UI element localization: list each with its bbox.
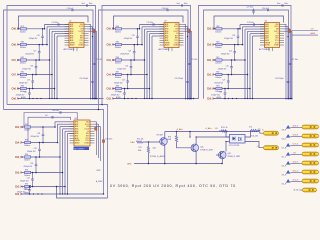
svg-text:XTL1: XTL1: [85, 138, 89, 140]
wire to J5: [257, 131, 263, 134]
capacitor C33 100n: [102, 139, 112, 143]
svg-text:100ohm: 100ohm: [24, 130, 31, 132]
svg-text:100ohm: 100ohm: [20, 77, 27, 79]
net label Ch5_IN: [107, 29, 115, 31]
resistor R74: [221, 127, 228, 132]
net label J5: [262, 129, 264, 131]
svg-text:C21 100n: C21 100n: [291, 59, 298, 61]
wire ADC output 4 block 2: [184, 31, 193, 99]
capacitor C16 4700pF: [29, 28, 44, 45]
wire to connector 5: [290, 162, 302, 164]
wire bus 3 to ADC pin block 1: [49, 29, 69, 99]
wire row 4 block 1: [18, 74, 21, 76]
wire opto out bottom: [245, 142, 264, 148]
svg-text:U3: U3: [265, 21, 267, 23]
ferrite bead block 2: [187, 30, 190, 37]
wire rail tap to opto: [189, 132, 191, 138]
svg-text:100ohm: 100ohm: [20, 31, 27, 33]
svg-text:4700pF 2kV: 4700pF 2kV: [111, 95, 121, 97]
wire bus 5 to ADC pin block 1: [54, 34, 69, 99]
svg-text:100ohm: 100ohm: [215, 77, 222, 79]
node port Ch6_In: [282, 161, 291, 168]
svg-text:DOUT: DOUT: [79, 31, 84, 33]
svg-text:4700pF 2kV: 4700pF 2kV: [22, 68, 32, 70]
wire Vref loop block 3: [199, 6, 292, 99]
svg-text:Vref: Vref: [82, 3, 86, 5]
wire bus 2 to ADC pin block 2: [141, 27, 164, 46]
svg-text:REFIN: REFIN: [265, 42, 271, 44]
svg-text:C21 100n: C21 100n: [191, 59, 198, 61]
net label Ch8_R out: [293, 134, 299, 136]
capacitor C27: [247, 7, 255, 15]
svg-text:100n: 100n: [184, 3, 188, 5]
svg-text:C13 100n: C13 100n: [147, 22, 154, 24]
net label Ch0_R: [207, 98, 215, 100]
capacitor C20 4700pF block 2: [175, 78, 189, 82]
wire ADC output 3 block 2: [184, 29, 191, 100]
wire bus 5 to ADC pin block 4: [64, 131, 74, 194]
svg-text:100kR: 100kR: [166, 139, 172, 141]
bottom channel block 4: [15, 110, 108, 198]
resistor R86 100ohm: [115, 57, 122, 65]
wire to connector 7: [290, 180, 302, 182]
top channel block 2: [99, 3, 199, 110]
svg-text:+5_AVcc: +5_AVcc: [176, 128, 183, 131]
svg-text:+5_AVcc: +5_AVcc: [205, 127, 212, 130]
wire ADC output 4 block 3: [284, 31, 293, 99]
capacitor C29 4700pF: [27, 142, 41, 158]
capacitor C18 4700pF: [22, 59, 37, 75]
svg-text:100ohm: 100ohm: [20, 47, 27, 49]
net label Ch1_R: [207, 74, 215, 76]
svg-text:U1: U1: [69, 21, 71, 23]
svg-text:RST: RST: [80, 38, 83, 40]
svg-text:C20: C20: [132, 35, 135, 37]
svg-text:100n: 100n: [284, 3, 288, 5]
svg-text:R71 10k: R71 10k: [137, 138, 143, 140]
wire bus 6 to ADC pin block 4: [67, 134, 74, 195]
wire bus 3 to ADC pin block 2: [144, 29, 164, 99]
capacitor C34 100n: [52, 110, 61, 114]
svg-text:4700pF 2kV: 4700pF 2kV: [20, 181, 30, 183]
wire bus 5 to ADC pin block 2: [149, 34, 164, 99]
resistor R73 100k: [166, 132, 178, 142]
svg-text:SYNGE_IO_ANGR: SYNGE_IO_ANGR: [150, 155, 165, 158]
capacitor C24 4700pF: [224, 28, 239, 45]
svg-text:4700pF 2kV: 4700pF 2kV: [114, 83, 124, 85]
svg-text:DGND: DGND: [84, 143, 90, 145]
wire bus 1 to ADC pin block 3: [239, 25, 264, 30]
svg-text:4700pF 2kV: 4700pF 2kV: [19, 83, 29, 85]
wire ADC output 2 block 1: [89, 27, 94, 100]
svg-text:XTL1: XTL1: [275, 40, 279, 42]
capacitor C13 100n block 1: [52, 22, 60, 26]
opto-isolator U5: [229, 135, 245, 148]
net label +5_AVcc A: [176, 128, 183, 131]
top channel block 1: [4, 3, 104, 110]
transistor Q26: [219, 151, 241, 159]
output connector column: [282, 125, 319, 192]
wire row 6 block 4: [25, 191, 30, 194]
svg-text:OPTO-TLP181: OPTO-TLP181: [229, 145, 240, 147]
wire bus 4 to ADC pin block 3: [247, 31, 265, 99]
svg-text:C20 4700pF: C20 4700pF: [175, 78, 184, 80]
wire row 3 block 2: [113, 59, 116, 61]
net label Ch4_R: [107, 73, 115, 76]
wire ADC output 2 block 2: [184, 27, 189, 100]
svg-text:AD7718BRU: AD7718BRU: [74, 147, 85, 150]
svg-text:4700pF 2kV: 4700pF 2kV: [211, 95, 221, 97]
resistor R80 100ohm: [20, 42, 27, 50]
wire ADC output 3 block 1: [89, 29, 96, 100]
svg-text:+5: +5: [257, 146, 259, 148]
wire REFIN route block 3: [214, 16, 284, 29]
wire bus 6 to ADC pin block 2: [151, 36, 164, 99]
net label Ch2_R bottom: [15, 194, 23, 196]
ferrite bead block 1: [92, 30, 95, 37]
svg-text:C27 100n: C27 100n: [247, 7, 254, 9]
svg-text:C24: C24: [119, 92, 122, 94]
svg-text:4700pF 2kV: 4700pF 2kV: [120, 54, 130, 56]
net label DAC: [131, 141, 136, 144]
net label Ch4_IN bottom: [15, 126, 23, 129]
svg-text:4700pF 2kV: 4700pF 2kV: [117, 68, 127, 70]
wire to connector 6: [290, 171, 302, 173]
wire row 3 block 1: [18, 59, 21, 61]
net label Ch3_IN: [107, 88, 115, 90]
svg-text:100ohm: 100ohm: [215, 47, 222, 49]
op-amp ADC U2 AD7718BRU: [159, 21, 184, 52]
svg-text:XTL1: XTL1: [174, 40, 178, 42]
capacitor C15 100n Vref block 3: [277, 3, 288, 7]
svg-text:REFIN: REFIN: [70, 42, 76, 44]
resistor R92 100ohm: [24, 140, 31, 148]
wire ADC4 output 1: [95, 122, 97, 155]
svg-text:DAC: DAC: [131, 141, 136, 144]
transistor Q25: [191, 144, 214, 152]
svg-text:Q26: Q26: [228, 153, 231, 155]
capacitor C25 4700pF: [221, 44, 236, 61]
note text: [110, 184, 236, 188]
wire bus 2 to ADC pin block 3: [242, 27, 265, 46]
net label Ch5_R: [107, 44, 115, 46]
svg-text:C25: C25: [229, 50, 232, 52]
svg-text:DGND: DGND: [274, 45, 280, 47]
capacitor C20 4700pF: [124, 28, 139, 45]
net label +5 J6: [257, 146, 259, 148]
svg-text:C33 100n: C33 100n: [105, 139, 112, 141]
capacitor C15 100n Vref block 2: [177, 3, 188, 7]
capacitor C20 4700pF: [16, 88, 31, 100]
net label TxD: [251, 136, 258, 138]
wire ADC4 output 2: [95, 124, 99, 158]
wire GND rail: [134, 163, 222, 165]
resistor R92 100ohm: [215, 72, 222, 80]
connector P4: [302, 152, 319, 156]
node port Ch5_In: [282, 170, 291, 177]
wire Q25 collector: [196, 137, 229, 145]
capacitor C14 4u7 block 1: [67, 8, 74, 11]
capacitor C20 4700pF block 1: [80, 78, 94, 82]
net label W_Db: [294, 190, 299, 192]
net label Ch6_R: [12, 98, 20, 100]
svg-text:DGND: DGND: [78, 45, 84, 47]
svg-text:XTL2: XTL2: [79, 42, 83, 44]
net label GND: [127, 163, 132, 165]
wire row 5 block 1: [18, 88, 21, 90]
wire to connector 3: [290, 144, 302, 146]
capacitor C30 4700pF: [24, 156, 38, 173]
wire AGND rail: [4, 110, 104, 195]
connector P1: [302, 125, 319, 129]
capacitor C31 4700pF: [20, 172, 34, 188]
capacitor C22 4700pF: [117, 59, 132, 75]
connector P5: [302, 161, 319, 165]
connector P7: [302, 179, 319, 183]
resistor R79 100ohm: [20, 26, 27, 34]
ferrite bead block 4: [95, 127, 97, 130]
svg-text:100ohm: 100ohm: [24, 160, 31, 162]
svg-text:4700pF 2kV: 4700pF 2kV: [17, 191, 27, 193]
svg-text:4700pF 2kV: 4700pF 2kV: [29, 38, 39, 40]
wire row 2 block 4: [21, 142, 24, 144]
capacitor C14 4u7 block 2: [162, 8, 169, 11]
resistor R95 100ohm: [24, 184, 31, 192]
svg-text:W_Db: W_Db: [294, 190, 299, 192]
net label Ch8_R: [12, 44, 20, 46]
resistor R75 4.7k: [249, 127, 261, 132]
svg-text:C32: C32: [24, 188, 27, 190]
svg-text:4u7: 4u7: [45, 115, 48, 117]
connector P3: [302, 143, 319, 147]
net label Ch6_In out: [293, 161, 299, 163]
resistor R88 100ohm: [115, 86, 122, 94]
resistor R84 100ohm: [115, 26, 122, 34]
svg-text:C13 100n: C13 100n: [247, 22, 254, 24]
svg-text:C14 4u7: C14 4u7: [162, 8, 169, 10]
svg-text:100ohm: 100ohm: [115, 31, 122, 33]
wire row 5 block 2: [113, 88, 116, 90]
wire ADC output 1 block 1: [89, 24, 92, 99]
wire bus 3 to ADC pin block 3: [244, 29, 264, 99]
wire opto pin2 to Q26: [225, 142, 227, 152]
resistor R81 100ohm: [20, 57, 27, 65]
wire to connector 1: [290, 126, 302, 128]
capacitor C28 4700pF: [211, 88, 226, 100]
svg-text:DOUT: DOUT: [274, 31, 279, 33]
connector P2: [302, 134, 319, 138]
svg-text:XTL1: XTL1: [79, 40, 83, 42]
net label Ch3_R bottom: [15, 172, 23, 174]
svg-text:TxD_485: TxD_485: [251, 136, 258, 138]
capacitor C21 100n block 2: [188, 59, 197, 64]
net label +5_AVcc B: [205, 127, 212, 130]
svg-text:SYNGE_IO_4N2R: SYNGE_IO_4N2R: [200, 149, 213, 151]
resistor R85 100ohm: [115, 42, 122, 50]
svg-text:C19: C19: [27, 80, 30, 82]
svg-text:100ohm: 100ohm: [215, 31, 222, 33]
svg-text:C26: C26: [226, 65, 229, 67]
svg-text:C17: C17: [33, 50, 36, 52]
wire row 3 block 4: [21, 156, 24, 158]
resistor R71 10k: [137, 138, 144, 143]
wire Q26 base: [216, 154, 221, 156]
svg-text:100ohm: 100ohm: [115, 47, 122, 49]
svg-text:100ohm: 100ohm: [115, 77, 122, 79]
wire R74 to opto pin1: [226, 130, 228, 132]
net label Ch8_In out: [293, 125, 299, 127]
svg-text:100ohm: 100ohm: [20, 63, 27, 65]
wire row 4 block 2: [113, 74, 116, 76]
net label Ch4_R bottom: [15, 141, 23, 144]
wire bus 1 to ADC pin block 1: [44, 25, 69, 30]
wire opto out top: [245, 131, 251, 138]
svg-text:R72: R72: [139, 147, 142, 149]
wire bus 4 to ADC pin block 2: [146, 31, 164, 99]
svg-text:RST: RST: [86, 136, 89, 138]
svg-text:C28: C28: [37, 133, 40, 135]
net label Ch3_R: [107, 98, 115, 100]
svg-text:4700pF 2kV: 4700pF 2kV: [124, 38, 134, 40]
svg-text:0R22: 0R22: [97, 170, 101, 172]
wire bus 6 to ADC pin block 1: [56, 36, 69, 99]
connector J6: [264, 146, 279, 150]
svg-text:4700pF 2kV: 4700pF 2kV: [27, 151, 37, 153]
capacitor C24 4700pF: [111, 88, 126, 100]
net label +5V out: [293, 152, 297, 154]
capacitor C14 4u7 block 3: [262, 8, 269, 11]
bottom driver circuit: [127, 127, 279, 166]
svg-text:XTL2: XTL2: [275, 42, 279, 44]
wire row 2 block 1: [18, 44, 21, 46]
resistor R94 100ohm: [24, 170, 31, 178]
wire Vref loop block 4: [24, 113, 77, 127]
svg-text:XTL2: XTL2: [85, 140, 89, 142]
svg-text:C31: C31: [27, 178, 30, 180]
svg-text:C21: C21: [128, 50, 131, 52]
svg-text:4700pF 2kV: 4700pF 2kV: [24, 166, 34, 168]
svg-text:Vref: Vref: [177, 3, 181, 5]
wire Vref loop block 2: [102, 6, 191, 105]
svg-text:4700pF 2kV: 4700pF 2kV: [25, 54, 35, 56]
resistor R82 100ohm: [20, 72, 27, 80]
svg-text:C30: C30: [30, 163, 33, 165]
wire bus 1 to ADC pin block 2: [139, 25, 164, 30]
node port Ch1_In: [282, 179, 291, 186]
capacitor C19 4700pF: [19, 74, 34, 90]
wire opto pin2: [226, 141, 230, 143]
svg-text:100ohm: 100ohm: [24, 145, 31, 147]
svg-text:DOUT: DOUT: [85, 128, 90, 130]
wire AVdd rail: [7, 105, 108, 199]
wire ADC output 1 block 2: [184, 24, 187, 99]
resistor R89 100ohm: [215, 26, 222, 34]
capacitor C35 4u7: [45, 115, 53, 119]
wire bus 3 to ADC pin block 4: [59, 127, 74, 195]
connector P8: [303, 188, 317, 192]
svg-text:REFIN: REFIN: [165, 42, 171, 44]
resistor R90 100ohm: [215, 42, 222, 50]
svg-text:100k: 100k: [138, 150, 142, 152]
capacitor C28 4700pF: [31, 126, 45, 143]
svg-text:0V 3900, Ryot 200 UV 2000,: 0V 3900, Ryot 200 UV 2000, Ryot 400, OTC…: [110, 184, 236, 188]
node port +5V: [282, 152, 291, 159]
net label Ch0_IN: [207, 88, 215, 90]
wire row 2 block 2: [113, 44, 116, 46]
net label Ch1_In out: [293, 179, 299, 181]
ferrite bead block 3: [287, 30, 290, 37]
svg-text:C16: C16: [37, 35, 40, 37]
svg-text:J5: J5: [262, 129, 264, 131]
net label Ch1_IN: [207, 60, 215, 62]
capacitor C21 4700pF: [120, 44, 135, 61]
resistor R72 100k: [138, 142, 150, 164]
wire R73 to Q25 base: [177, 142, 192, 148]
svg-text:Q25: Q25: [200, 147, 203, 149]
svg-text:C18: C18: [30, 65, 33, 67]
svg-text:C22: C22: [125, 65, 128, 67]
wire row 5 block 3: [213, 88, 216, 90]
net label Ch3_IN bottom: [15, 157, 23, 159]
resistor R91 100ohm: [24, 124, 31, 132]
wire Vref loop block 1: [7, 6, 96, 105]
svg-text:4700pF 2kV: 4700pF 2kV: [214, 83, 224, 85]
wire bus 2 to ADC pin block 4: [57, 124, 74, 143]
wire ADC output 3 block 3: [284, 29, 291, 100]
wire row 6 block 1: [21, 96, 26, 99]
resistor R93 100ohm: [215, 86, 222, 94]
top channel block 3: [199, 3, 299, 101]
svg-text:C28: C28: [219, 92, 222, 94]
svg-text:RST: RST: [276, 38, 279, 40]
wire row 3 block 3: [213, 59, 216, 61]
svg-text:4700pF 2kV: 4700pF 2kV: [16, 95, 26, 97]
node port Ch7_In: [282, 143, 291, 150]
wire row 1 block 4: [21, 126, 24, 128]
net label Ch5_In out: [293, 170, 299, 172]
svg-text:100ohm: 100ohm: [115, 63, 122, 65]
node port Ch8_R: [282, 134, 291, 141]
svg-text:AD7718BRU: AD7718BRU: [64, 48, 75, 51]
svg-text:100ohm: 100ohm: [215, 63, 222, 65]
svg-text:REFIN: REFIN: [75, 140, 81, 142]
svg-text:C23: C23: [122, 80, 125, 82]
net label Ch7_IN: [12, 60, 20, 62]
wire row 4 block 3: [213, 74, 216, 76]
svg-text:C24: C24: [232, 35, 235, 37]
capacitor C21 100n block 1: [93, 59, 102, 64]
resistor R83 100ohm: [20, 86, 27, 94]
net label Ch2_IN bottom: [15, 186, 23, 188]
capacitor C21 100n block 3: [289, 59, 298, 64]
wire Q24 collector: [164, 132, 166, 139]
resistor R87 100ohm: [115, 72, 122, 80]
capacitor C26 4700pF: [218, 59, 233, 75]
resistor 0R22: [97, 170, 101, 172]
wire row 1 block 1: [18, 28, 21, 30]
capacitor C17 4700pF: [25, 44, 40, 61]
wire row 6 block 3: [217, 96, 222, 99]
svg-text:C13 100n: C13 100n: [52, 22, 59, 24]
svg-text:4.7k: 4.7k: [249, 127, 252, 129]
op-amp ADC U4 AD7718BRU: [70, 118, 95, 150]
net label SYNGE_IO_ANGR: [150, 155, 165, 158]
wire to connector 8: [300, 189, 303, 191]
svg-text:4700pF 2kV: 4700pF 2kV: [31, 136, 41, 138]
wire Q25 emitter: [195, 151, 197, 163]
wire to connector 4: [290, 153, 302, 155]
svg-text:SYNGE_IO_4N2R: SYNGE_IO_4N2R: [228, 156, 241, 158]
